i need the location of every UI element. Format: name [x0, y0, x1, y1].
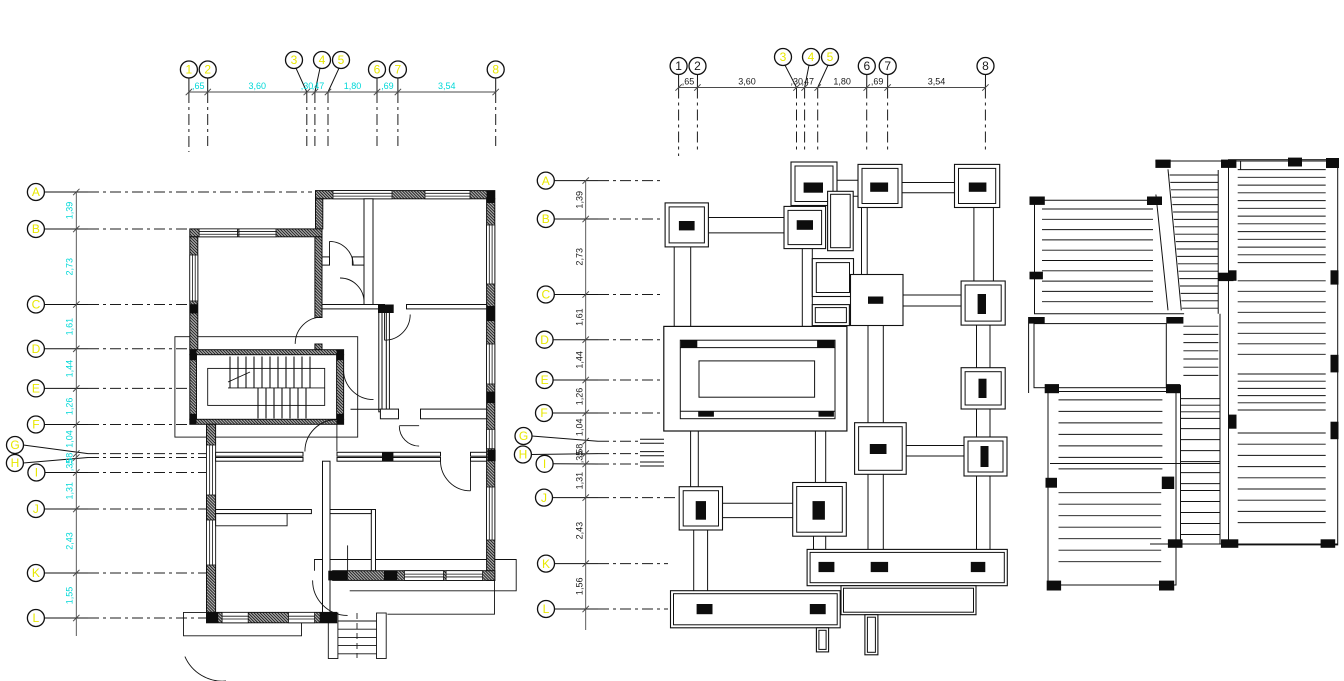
pit column BR — [819, 411, 834, 417]
interior wall row G segment 1 — [216, 452, 303, 456]
svg-text:I: I — [543, 457, 546, 471]
svg-text:8: 8 — [492, 63, 499, 77]
slab M joist lines (cut by stair) — [1170, 175, 1219, 308]
window right 3 — [487, 487, 495, 540]
stair landing outline (thin rect) — [175, 337, 358, 437]
interior wall H2 — [380, 409, 398, 419]
junction rect S2 — [812, 305, 849, 326]
slab R band 4 — [1238, 433, 1326, 523]
column right wall row C — [487, 306, 495, 321]
pit column TR — [817, 340, 834, 347]
strip footing right band — [807, 549, 1007, 585]
svg-text:5: 5 — [827, 50, 834, 64]
column L1 — [679, 221, 695, 230]
svg-text:1,44: 1,44 — [65, 360, 75, 378]
long reference line — [1050, 463, 1220, 465]
beam R2-R3 — [977, 325, 991, 368]
interior wall row C right — [407, 305, 487, 309]
column M3 — [870, 444, 887, 454]
grid bubble 6 (foundation plan) with leader and dashed axis — [858, 58, 875, 151]
exterior wall top-right — [316, 191, 495, 199]
grid bubble G (floor plan row) with dashed axis — [7, 437, 216, 454]
stair wall bottom — [190, 419, 344, 424]
slab M band pit-side — [1183, 326, 1218, 375]
svg-text:,47: ,47 — [801, 77, 814, 87]
stair corner column BR — [337, 414, 344, 425]
pit column BL — [698, 411, 714, 417]
svg-text:B: B — [542, 212, 550, 226]
svg-text:C: C — [541, 288, 550, 302]
svg-text:7: 7 — [395, 63, 402, 77]
col bottom-3 — [1321, 539, 1336, 548]
svg-text:,65: ,65 — [682, 77, 695, 87]
grid bubble 5 (floor plan) with leader and dashed axis — [328, 52, 350, 147]
col R right edge-1 — [1331, 270, 1339, 284]
bottom-right terrace outline — [315, 560, 517, 591]
window bottom-right 1 — [404, 571, 443, 581]
door row C — [385, 309, 411, 340]
footing T3 — [955, 164, 1000, 207]
stair wall left — [190, 355, 197, 420]
grid bubble E (floor plan row) with dashed axis — [27, 380, 190, 397]
grid bubble D (foundation plan row) with dashed axis — [536, 331, 663, 348]
svg-text:4: 4 — [319, 53, 326, 67]
beam M2-M3 — [868, 326, 883, 423]
column T1 — [804, 183, 823, 193]
svg-text:2,73: 2,73 — [65, 258, 75, 276]
beam R4-band — [977, 476, 991, 549]
svg-text:3,60: 3,60 — [249, 81, 267, 91]
column bottom wall — [320, 612, 337, 622]
svg-text:H: H — [11, 456, 20, 470]
beam M1-pit — [802, 249, 812, 327]
svg-text:C: C — [32, 298, 41, 312]
col A2 right — [1162, 477, 1174, 489]
svg-text:3,54: 3,54 — [438, 81, 456, 91]
footing L1 — [665, 203, 708, 247]
slab R band 2 — [1238, 281, 1326, 355]
interior wall hall partition — [371, 510, 375, 571]
grid bubble 7 (foundation plan) with leader and dashed axis — [879, 58, 896, 151]
col top mid-1 — [1155, 160, 1170, 168]
ledge below right band — [841, 586, 976, 615]
svg-text:3,60: 3,60 — [738, 77, 756, 87]
grid bubble 3 (foundation plan) with leader and dashed axis — [775, 49, 797, 151]
footing R3 — [961, 368, 1005, 409]
slab A3 joist lines — [1059, 493, 1162, 562]
beam L1-M1 — [708, 218, 784, 233]
grid bubble F (floor plan row) with dashed axis — [27, 416, 189, 433]
beam M2-R2 — [903, 295, 961, 306]
svg-text:1: 1 — [675, 59, 682, 73]
svg-text:E: E — [32, 382, 40, 396]
interior wall H4 — [322, 257, 330, 265]
window bottom-left 1 — [222, 612, 248, 622]
beam L2-M4 — [723, 503, 793, 517]
svg-text:G: G — [10, 438, 19, 452]
column M1 — [797, 220, 813, 230]
svg-text:7: 7 — [884, 59, 891, 73]
footing M2 — [851, 275, 904, 326]
grid bubble 5 (foundation plan) with leader and dashed axis — [818, 49, 839, 151]
foundation plan top dimension line — [679, 87, 986, 89]
exterior wall connector — [316, 199, 323, 229]
col R left edge-2 — [1229, 415, 1237, 429]
stair pit middle — [680, 340, 835, 419]
beam R3-R4 — [977, 409, 991, 437]
grid bubble 1 (floor plan) with leader and dashed axis — [180, 61, 197, 152]
grid line stubs G H I (foundation) — [640, 439, 664, 466]
window bottom-right 2 — [446, 571, 483, 581]
svg-text:A: A — [32, 185, 40, 199]
white band outer (pit area) — [1034, 324, 1166, 388]
slab right column outer rect — [1229, 160, 1338, 545]
window top-right 1 — [333, 191, 392, 199]
grid bubble 8 (foundation plan) with leader and dashed axis — [977, 58, 994, 151]
interior wall V3 — [323, 461, 331, 612]
svg-text:E: E — [541, 373, 549, 387]
footing T2 — [858, 164, 902, 207]
column right wall row G — [488, 450, 496, 462]
slab plan top edge — [1155, 160, 1332, 162]
stair corner column TL — [190, 350, 197, 361]
col A1 TL — [1030, 197, 1045, 205]
grid bubble K (foundation plan row) with dashed axis — [538, 555, 669, 572]
interior wall V1 — [364, 199, 373, 305]
column row G mid — [382, 452, 393, 461]
grid bubble B (foundation plan row) with dashed axis — [537, 211, 663, 228]
svg-text:1,26: 1,26 — [65, 398, 75, 416]
counter below row J wall — [216, 514, 288, 526]
door hall middle — [344, 370, 374, 400]
svg-text:1,39: 1,39 — [575, 191, 585, 209]
svg-text:2,73: 2,73 — [575, 248, 585, 266]
grid bubble L (foundation plan row) with dashed axis — [538, 601, 669, 618]
col A1 left mid — [1030, 272, 1043, 280]
floor plan top dimension line — [189, 91, 496, 93]
svg-text:1,26: 1,26 — [575, 388, 585, 406]
grid bubble D (floor plan row) with dashed axis — [27, 340, 190, 357]
svg-text:3,54: 3,54 — [928, 77, 946, 87]
door bottom-right room — [441, 461, 471, 491]
col A2 left — [1046, 478, 1058, 488]
beam M3-R4 — [906, 446, 964, 457]
footing R4 — [964, 437, 1007, 476]
col A3 BR — [1159, 581, 1174, 591]
svg-text:8: 8 — [982, 59, 989, 73]
terrace step edge lines — [387, 580, 494, 614]
svg-text:3: 3 — [291, 53, 298, 67]
junction rect R1 — [828, 191, 854, 250]
col A1 TR — [1147, 197, 1162, 206]
slab M band c — [1181, 491, 1220, 535]
column bottom-left corner — [207, 612, 219, 622]
footing M1 — [784, 206, 826, 248]
svg-text:1,80: 1,80 — [833, 77, 851, 87]
entrance door — [313, 545, 348, 615]
grid bubble 4 (foundation plan) with leader and dashed axis — [803, 49, 820, 151]
svg-text:1,61: 1,61 — [65, 318, 75, 336]
strip column band-1 — [819, 562, 835, 572]
slab bottom edge — [1150, 543, 1338, 545]
floor plan top dimension values (cyan) — [192, 81, 456, 91]
foundation left dimension values (rotated) — [575, 191, 585, 595]
strip column band-2 — [871, 562, 888, 572]
footing T1 — [791, 162, 837, 206]
beam M3-band — [868, 474, 883, 549]
column T3 — [969, 183, 987, 192]
svg-text:1,44: 1,44 — [575, 351, 585, 369]
svg-text:,69: ,69 — [381, 81, 394, 91]
slab M band a — [1181, 399, 1220, 419]
exterior wall bottom-left — [207, 612, 337, 622]
grid bubble L (floor plan row) with dashed axis — [27, 610, 206, 627]
grid bubble I (floor plan row) with dashed axis — [28, 464, 215, 481]
svg-text:,35: ,35 — [65, 459, 75, 472]
door H2 — [399, 426, 419, 446]
svg-text:1,80: 1,80 — [344, 81, 362, 91]
beam M4-down — [814, 536, 826, 550]
floor plan left dimension line — [75, 192, 77, 636]
svg-text:1: 1 — [186, 63, 193, 77]
grid bubble J (floor plan row) with dashed axis — [27, 501, 215, 518]
strip column band-3 — [971, 562, 986, 572]
grid bubble 2 (foundation plan) with leader and dashed axis — [689, 58, 706, 151]
grid bubble H (floor plan row) with dashed axis — [6, 455, 215, 472]
grid bubble A (foundation plan row) with dashed axis — [537, 172, 663, 189]
footing M4 — [793, 483, 847, 537]
foundation top dimension ticks — [675, 84, 988, 90]
exterior wall right — [487, 199, 495, 581]
svg-text:A: A — [542, 174, 550, 188]
window top-left 2 — [239, 229, 276, 237]
col bottom-1 — [1168, 539, 1183, 548]
column at V2 row C — [378, 305, 394, 314]
svg-text:L: L — [543, 602, 550, 616]
svg-text:,65: ,65 — [192, 81, 205, 91]
slab M band b — [1181, 429, 1220, 484]
junction rect S1 — [812, 259, 853, 297]
svg-text:6: 6 — [863, 59, 870, 73]
svg-text:I: I — [35, 466, 38, 480]
svg-text:1,31: 1,31 — [65, 482, 75, 500]
window left lower 2 — [207, 520, 216, 565]
svg-text:K: K — [32, 566, 40, 580]
svg-text:D: D — [540, 333, 549, 347]
foundation left dimension ticks — [583, 177, 589, 612]
column M2 — [868, 297, 883, 304]
col top right corner — [1326, 158, 1339, 168]
svg-text:1,61: 1,61 — [575, 308, 585, 326]
svg-text:6: 6 — [374, 63, 381, 77]
beam T3-R2 — [974, 208, 994, 282]
slab M top edge lines — [1217, 170, 1219, 314]
svg-text:,47: ,47 — [312, 81, 325, 91]
svg-text:F: F — [32, 418, 39, 432]
window top-left 1 — [199, 229, 237, 237]
col A3 BL — [1047, 581, 1061, 591]
grid bubble 7 (floor plan) with leader and dashed axis — [389, 61, 406, 146]
col top mid-2 — [1221, 160, 1236, 168]
grid bubble 4 (floor plan) with leader and dashed axis — [314, 52, 331, 147]
svg-text:J: J — [33, 502, 39, 516]
wall between blocks upper — [315, 237, 322, 318]
svg-text:2: 2 — [204, 63, 211, 77]
beam T2-T3 — [902, 183, 955, 193]
stair corner column BL — [190, 414, 197, 425]
column right wall mid — [487, 392, 495, 403]
interior wall V2 — [379, 309, 382, 412]
stub footing 2 — [865, 615, 878, 655]
door hall west — [305, 420, 337, 452]
svg-text:,69: ,69 — [871, 77, 884, 87]
beam T2-M2 — [862, 208, 868, 275]
svg-text:1,56: 1,56 — [575, 578, 585, 596]
window right 1 — [487, 225, 495, 284]
grid bubble I (foundation plan row) with dashed axis — [536, 455, 640, 472]
pit column TL — [681, 340, 698, 347]
grid bubble F (foundation plan row) with dashed axis — [536, 405, 664, 422]
grid bubble K (floor plan row) with dashed axis — [27, 565, 206, 582]
wall between blocks lower — [315, 344, 322, 350]
column entrance right — [384, 571, 397, 581]
floor plan left dimension values (cyan, rotated) — [65, 202, 75, 605]
grid bubble J (foundation plan row) with dashed axis — [536, 489, 677, 506]
column R4 — [981, 446, 989, 467]
grid bubble C (floor plan row) with dashed axis — [27, 296, 190, 313]
slab M lane edges — [1180, 385, 1182, 544]
svg-text:2,43: 2,43 — [65, 532, 75, 550]
svg-text:1,04: 1,04 — [575, 419, 585, 437]
beam T1-T2 — [837, 180, 858, 196]
white band left outer edge — [1028, 317, 1030, 393]
col bottom-2 — [1221, 539, 1238, 548]
footing R2 — [961, 281, 1005, 325]
grid bubble A (floor plan row) with dashed axis — [27, 184, 312, 201]
column R3 — [979, 379, 987, 398]
svg-text:3: 3 — [780, 50, 787, 64]
stair flight diagonal 1 — [1156, 195, 1168, 311]
strip column leftband-2 — [810, 604, 826, 614]
slab R band 3 — [1238, 374, 1326, 410]
slab A2 outline — [1048, 392, 1176, 586]
slab A1 joist lines — [1042, 209, 1153, 302]
svg-text:1,04: 1,04 — [65, 430, 75, 448]
col R left edge-1 — [1229, 270, 1237, 281]
stair pit inner — [699, 361, 815, 397]
interior wall row H segment 2 — [216, 458, 303, 462]
window bottom-left 2 — [289, 612, 315, 622]
stair flight diagonal 2 — [1168, 169, 1181, 310]
svg-text:2: 2 — [694, 59, 701, 73]
bottom-left terrace outline — [184, 612, 302, 635]
beam L2-band — [694, 530, 708, 591]
window left lower 1 — [207, 445, 216, 495]
stair corner column TR — [337, 350, 344, 361]
foundation left dimension line — [585, 181, 587, 630]
column L2 — [696, 501, 706, 520]
interior wall row J — [216, 510, 312, 514]
footing L2 — [679, 487, 722, 530]
grid bubble 8 (floor plan) with leader and dashed axis — [487, 61, 504, 146]
floor plan top dimension ticks — [186, 89, 499, 95]
slab A2 joist lines — [1059, 400, 1163, 469]
svg-text:G: G — [519, 429, 528, 443]
pit top edge doubled line — [680, 347, 835, 349]
grid bubble C (foundation plan row) with dashed axis — [537, 286, 663, 303]
stair pit outer — [664, 326, 847, 431]
staircase treads and railing — [208, 357, 325, 419]
slab R band 1 — [1238, 170, 1326, 263]
grid bubble 3 (floor plan) with leader and dashed axis — [286, 52, 307, 147]
exterior wall top-left — [190, 229, 322, 237]
pit bottom edge doubled line — [680, 410, 835, 412]
grid bubble B (floor plan row) with dashed axis — [27, 221, 188, 238]
grid bubble G (foundation plan row) with dashed axis — [515, 428, 640, 445]
stub footing 1 — [816, 628, 828, 652]
col white band TL — [1029, 317, 1045, 324]
col right lane — [1218, 273, 1233, 281]
beam L1-pit — [674, 247, 691, 327]
beam pit-L2 — [691, 431, 699, 487]
col A2 top-r — [1166, 384, 1180, 393]
entrance steps — [328, 613, 386, 659]
beam M4-up — [815, 431, 825, 483]
grid bubble E (foundation plan row) with dashed axis — [536, 372, 663, 389]
exterior wall bottom-right — [333, 571, 495, 581]
column entrance left — [328, 571, 347, 581]
col white band top — [1166, 317, 1183, 324]
stair wall top — [190, 350, 344, 355]
window right 2 — [487, 429, 495, 448]
grid bubble 2 (floor plan) with leader and dashed axis — [199, 61, 216, 146]
column T2 — [870, 183, 888, 192]
svg-text:D: D — [32, 342, 41, 356]
exterior wall left upper — [190, 237, 198, 350]
svg-text:F: F — [540, 406, 547, 420]
svg-text:4: 4 — [808, 50, 815, 64]
exterior wall left lower — [207, 424, 216, 612]
window top-right 2 — [425, 191, 470, 199]
column M4 — [813, 501, 825, 520]
door to left room — [295, 317, 322, 344]
svg-text:H: H — [519, 448, 528, 462]
footing M3 — [855, 423, 907, 475]
door upper corridor — [330, 241, 354, 265]
svg-text:5: 5 — [338, 53, 345, 67]
svg-text:J: J — [541, 491, 547, 505]
window left upper — [190, 255, 198, 301]
col A2 top-l — [1045, 384, 1059, 393]
grid bubble 6 (floor plan) with leader and dashed axis — [369, 61, 386, 146]
svg-text:1,39: 1,39 — [65, 202, 75, 220]
grid bubble 1 (foundation plan) with leader and dashed axis — [670, 58, 687, 157]
column R2 — [978, 294, 986, 314]
window right wall mid — [487, 344, 495, 384]
stair wall right — [337, 355, 344, 420]
foundation top dimension values — [682, 77, 946, 87]
col top right-1 — [1288, 158, 1302, 167]
door corridor 2 — [340, 278, 364, 302]
interior wall row C left — [322, 305, 385, 309]
terrace door bottom-left — [185, 657, 226, 681]
col R right edge-3 — [1331, 422, 1339, 440]
svg-text:1,31: 1,31 — [575, 472, 585, 490]
svg-text:2,43: 2,43 — [575, 522, 585, 540]
column in left wall row C — [190, 304, 198, 313]
col R right edge-2 — [1331, 355, 1339, 373]
svg-text:L: L — [33, 611, 40, 625]
